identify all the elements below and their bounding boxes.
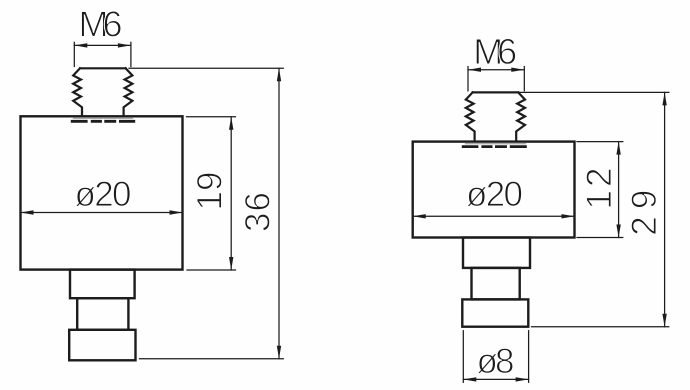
dimension ø8 (right): arrowheads [463, 377, 528, 381]
dimension 19 (left): dimension line [230, 117, 232, 270]
dimension 19 (left): extension lines [187, 117, 236, 270]
right connector neck [472, 268, 520, 300]
dimension ø20 (left): dimension line with arrows [21, 212, 183, 214]
dimension M6 (right): dimension line [468, 69, 524, 71]
svg-text:ø20: ø20 [75, 175, 132, 214]
dimension 12 (right): extension lines [577, 142, 623, 238]
dimension 12 (right): dimension line [618, 142, 620, 238]
svg-text:36: 36 [239, 192, 278, 232]
svg-text:M6: M6 [79, 4, 123, 45]
dimension ø8 (right): extension lines [463, 331, 528, 383]
right stud base collar (hidden-line chamfer ring) [462, 144, 527, 147]
dimension M6 (left): dimension line [74, 44, 131, 46]
dimension ø8 (right): dimension line [463, 378, 528, 380]
left connector step 1 [70, 270, 135, 299]
left stud base collar (hidden-line chamfer ring) [71, 118, 135, 121]
dimension ø20 (right): dimension line with arrows [413, 215, 575, 217]
dimension 29 (right): arrowheads [662, 92, 666, 326]
dimension 29 (right): dimension line [664, 92, 666, 326]
svg-text:ø20: ø20 [466, 175, 523, 214]
dimension M6 (left): extension lines [74, 42, 131, 66]
dimension 29 (right): extension lines [519, 92, 669, 326]
dimension 19 (left): arrowheads [229, 117, 233, 270]
right threaded stud M6 [466, 92, 525, 141]
dimension M6 (left): arrowheads [74, 43, 131, 47]
right connector step 1 [463, 238, 530, 268]
right connector bottom block [462, 299, 528, 326]
right body cylinder outline [413, 142, 575, 238]
left threaded stud M6 [73, 68, 132, 116]
dimension 36 (left): dimension line [278, 68, 280, 359]
left body cylinder outline [21, 116, 183, 269]
dimension 12 (right): arrowheads [616, 142, 620, 238]
dimension M6 (right): extension lines [468, 67, 524, 91]
svg-text:19: 19 [191, 172, 230, 211]
left connector bottom block [69, 330, 135, 361]
svg-text:M6: M6 [473, 31, 517, 72]
svg-text:ø8: ø8 [477, 342, 515, 381]
dimension M6 (right): arrowheads [468, 68, 524, 72]
dimension 36 (left): arrowheads [277, 68, 281, 359]
left connector neck [77, 298, 128, 330]
dimension 36 (left): extension lines [129, 68, 283, 359]
